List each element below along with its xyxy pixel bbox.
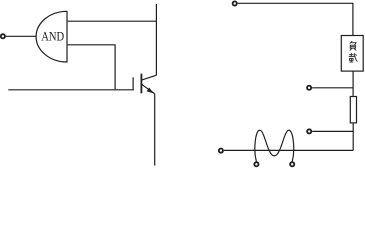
load box (fuzai) [341, 36, 363, 72]
collector diagonal [142, 75, 157, 80]
node: lower middle terminal [307, 129, 311, 133]
node: left input terminal [1, 34, 5, 38]
node: middle terminal [307, 86, 311, 90]
svg-text:AND: AND [41, 29, 64, 43]
node: bottom left terminal [219, 149, 223, 153]
body bar [140, 74, 142, 94]
node: right plug terminal [290, 162, 294, 166]
transistor Q1 (IGBT) [133, 74, 156, 94]
wire: top horizontal and down to load [238, 3, 353, 35]
wire: middle terminal stub [312, 87, 353, 89]
wire: resistor to bottom corner [352, 123, 354, 150]
wire: gate upper right pin to collector rail [68, 20, 157, 22]
label: character zai (carry) [349, 53, 358, 62]
crossover loops (two wire hops) [255, 130, 294, 161]
wire: collector rail (vertical) [155, 4, 157, 75]
node: top terminal of right circuit [233, 1, 237, 5]
emitter diagonal [142, 84, 155, 93]
wire: terminal to AND gate output [6, 35, 37, 37]
gate bar [132, 77, 134, 90]
wire: long bottom-left horizontal to transistor gate [8, 89, 133, 91]
AND gate U1 (mirrored, curve on left) [36, 11, 67, 62]
wire: lower terminal stub [312, 130, 353, 132]
wire: gate lower right pin, right then down [68, 45, 116, 89]
emitter arrowhead [147, 88, 154, 94]
node: left plug terminal [254, 162, 258, 166]
label: character fu (load) [350, 41, 357, 50]
wire: emitter down lead [154, 94, 156, 166]
wire: bottom horizontal [224, 149, 353, 151]
wire: load box to resistor [352, 71, 354, 96]
resistor R1 [350, 97, 356, 123]
